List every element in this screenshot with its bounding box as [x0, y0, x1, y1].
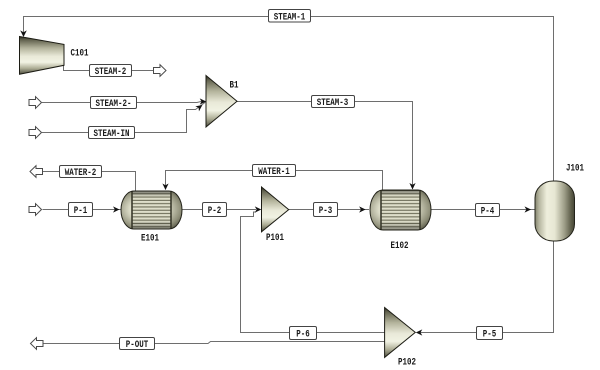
svg-text:P-4: P-4 [481, 206, 495, 218]
arrowhead P-5 into P102 apex [416, 329, 423, 335]
stream label P-3 [314, 203, 338, 218]
stream label WATER-1 [253, 165, 296, 179]
svg-text:STEAM-2: STEAM-2 [95, 66, 127, 78]
stream label P-OUT [120, 338, 155, 352]
svg-text:P-3: P-3 [319, 205, 333, 217]
svg-text:B1: B1 [230, 80, 239, 92]
wire J101 bottom to P-5 to P102 apex [417, 241, 554, 333]
svg-text:STEAM-3: STEAM-3 [317, 97, 349, 109]
stream label STEAM-IN [89, 127, 135, 141]
svg-text:P-2: P-2 [208, 205, 222, 217]
arrowhead into C101 top [20, 30, 27, 37]
feed arrow STEAM-IN [29, 127, 42, 139]
arrowhead WATER-1 into E101 top [162, 184, 168, 191]
wire E102 outlet P-4 to J101 [430, 209, 535, 211]
svg-text:STEAM-1: STEAM-1 [274, 12, 306, 24]
arrowhead STEAM-IN into B1 [195, 102, 204, 111]
wire P101 outlet P-3 to E102 [289, 209, 369, 211]
arrowhead STEAM-2- into B1 [200, 98, 207, 104]
heat exchanger E102 shell [370, 190, 431, 230]
svg-text:WATER-2: WATER-2 [65, 167, 97, 179]
wire WATER-2 from E101 top to exit [43, 172, 136, 192]
wire P102 lower outlet to P-OUT exit [43, 342, 385, 344]
arrowhead STEAM-3 into E102 top [409, 183, 415, 190]
product arrow WATER-2 [30, 166, 43, 178]
product arrow STEAM-2 [154, 65, 167, 77]
stream label P-4 [476, 204, 500, 218]
wire STEAM-1 from J101 top up, left, down to C101 inlet [24, 17, 554, 182]
arrowhead P-1 into E101 [113, 206, 120, 212]
svg-text:P101: P101 [266, 232, 284, 244]
stream label STEAM-2- [91, 97, 137, 111]
stream label WATER-2 [60, 166, 102, 180]
wire STEAM-2- inlet to B1 [42, 102, 205, 103]
stream label P-1 [69, 203, 93, 218]
svg-text:C101: C101 [71, 48, 89, 60]
svg-text:STEAM-2-: STEAM-2- [96, 98, 132, 110]
stream label P-5 [477, 327, 503, 341]
feed arrow STEAM-2- [29, 97, 42, 109]
arrowhead P-2 into P101 [255, 206, 261, 212]
stream label P-6 [290, 327, 317, 341]
svg-text:E101: E101 [141, 233, 159, 245]
product arrow P-OUT [31, 338, 44, 350]
compressor C101 [20, 37, 65, 75]
pump P102 [385, 308, 416, 358]
arrowhead P-4 into J101 [525, 206, 532, 212]
heat exchanger E101 shell [121, 191, 182, 229]
svg-text:P-OUT: P-OUT [126, 339, 149, 351]
pump P101 [262, 187, 289, 232]
svg-text:P-5: P-5 [483, 329, 497, 341]
svg-text:P-6: P-6 [296, 329, 310, 341]
arrowhead P-3 into E102 [359, 206, 366, 212]
stream label P-2 [203, 203, 227, 218]
wire WATER-1 from E102 top to E101 top [166, 171, 383, 191]
svg-text:J101: J101 [566, 163, 584, 175]
svg-text:P102: P102 [398, 357, 416, 366]
feed arrow P-1 [29, 204, 42, 216]
svg-text:P-1: P-1 [74, 205, 88, 217]
wire C101 outlet to STEAM-2 exit [64, 65, 154, 71]
wire STEAM-IN inlet to B1 [42, 102, 205, 132]
stream label STEAM-1 [269, 10, 311, 24]
svg-text:E102: E102 [391, 240, 409, 252]
wire recycle riser from P-6 line up to P101 inlet [241, 212, 257, 333]
wire B1 outlet STEAM-3 to E102 top [237, 102, 413, 190]
wire P102 upper outlet P-6 line [240, 332, 385, 334]
svg-text:STEAM-IN: STEAM-IN [94, 128, 130, 140]
wire E101 outlet P-2 to P101 [182, 209, 256, 211]
stream label STEAM-2 [90, 65, 132, 79]
flash drum J101 [535, 181, 575, 241]
wire P-1 inlet to E101 [43, 209, 122, 211]
stream label STEAM-3 [312, 96, 355, 110]
mixer B1 [206, 76, 237, 128]
svg-text:WATER-1: WATER-1 [258, 166, 290, 178]
